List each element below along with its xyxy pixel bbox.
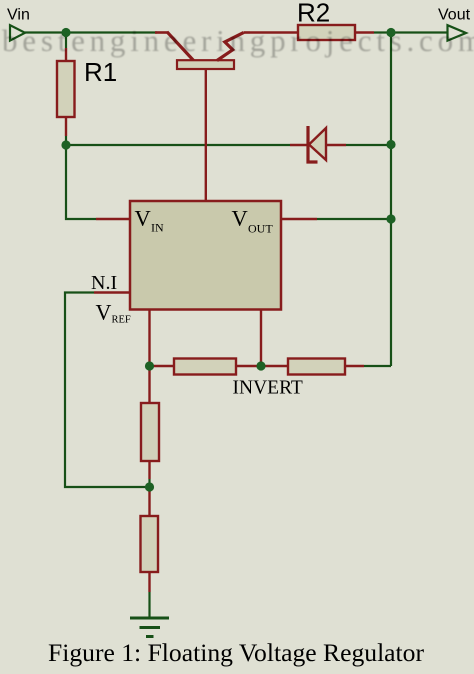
svg-text:V: V [135, 206, 151, 231]
transistor Q1 [155, 32, 250, 201]
svg-text:V: V [96, 300, 112, 325]
svg-text:OUT: OUT [248, 222, 273, 236]
pin label VIN [135, 206, 164, 235]
wire junction down to VIN pin corner [66, 145, 96, 219]
pin VIN wire [96, 218, 130, 220]
svg-text:Vout: Vout [438, 7, 471, 24]
resistor R6 vertical [141, 487, 159, 592]
node junction diode right [386, 140, 395, 149]
diode D1 [290, 126, 346, 162]
pin label VOUT [232, 206, 274, 236]
resistor R1 [57, 48, 75, 136]
resistor R5 horizontal right [261, 359, 364, 375]
node junction divider mid [145, 482, 154, 491]
node junction divider top left [145, 361, 154, 370]
resistor R3 vertical [141, 366, 159, 479]
node junction at R1 top [61, 28, 70, 37]
label VREF [96, 300, 131, 326]
label INVERT [233, 378, 303, 399]
pin invert wire down [260, 310, 262, 367]
svg-text:Figure 1: Floating Voltage Reg: Figure 1: Floating Voltage Regulator [48, 638, 425, 667]
label Vin [7, 7, 30, 24]
label R2 [297, 0, 330, 28]
label Vout [438, 7, 471, 24]
wire VOUT pin to right rail [317, 218, 391, 220]
wire right rail vertical [390, 33, 392, 367]
wire R6 to ground [148, 592, 150, 617]
wire junction to diode [66, 144, 290, 146]
node junction top right [386, 28, 395, 37]
pin N.I wire [94, 291, 130, 293]
pin VREF wire down [148, 310, 150, 367]
wire N.I to divider junction [65, 293, 150, 488]
watermark [2, 23, 474, 58]
wire R3 to junction [148, 479, 150, 487]
wire R2 to Vout [374, 31, 448, 33]
regulator U1 box [130, 201, 281, 310]
node junction VOUT rail [386, 214, 395, 223]
label R1 [84, 57, 117, 87]
wire diode to right rail [346, 144, 391, 146]
wire R5 to right rail corner [364, 365, 391, 367]
svg-text:REF: REF [112, 315, 131, 326]
svg-text:V: V [232, 206, 248, 231]
wire junction down to R1 [65, 33, 67, 49]
node junction left rail [61, 140, 70, 149]
node junction between horizontal resistors [256, 361, 265, 370]
ground [130, 618, 169, 637]
wire Vin to transistor [25, 31, 157, 33]
svg-text:INVERT: INVERT [233, 378, 303, 399]
wire R1 bottom to junction [65, 136, 67, 145]
svg-text:R1: R1 [84, 57, 117, 87]
caption text [48, 638, 425, 667]
svg-text:N.I: N.I [91, 272, 117, 294]
resistor R2 [250, 25, 374, 40]
svg-text:IN: IN [151, 221, 164, 235]
terminal Vout [448, 25, 467, 40]
resistor R4 horizontal left [150, 359, 262, 375]
pin VOUT wire [281, 218, 317, 220]
svg-text:Vin: Vin [7, 7, 30, 24]
label N.I [91, 272, 117, 294]
terminal Vin [10, 25, 25, 40]
